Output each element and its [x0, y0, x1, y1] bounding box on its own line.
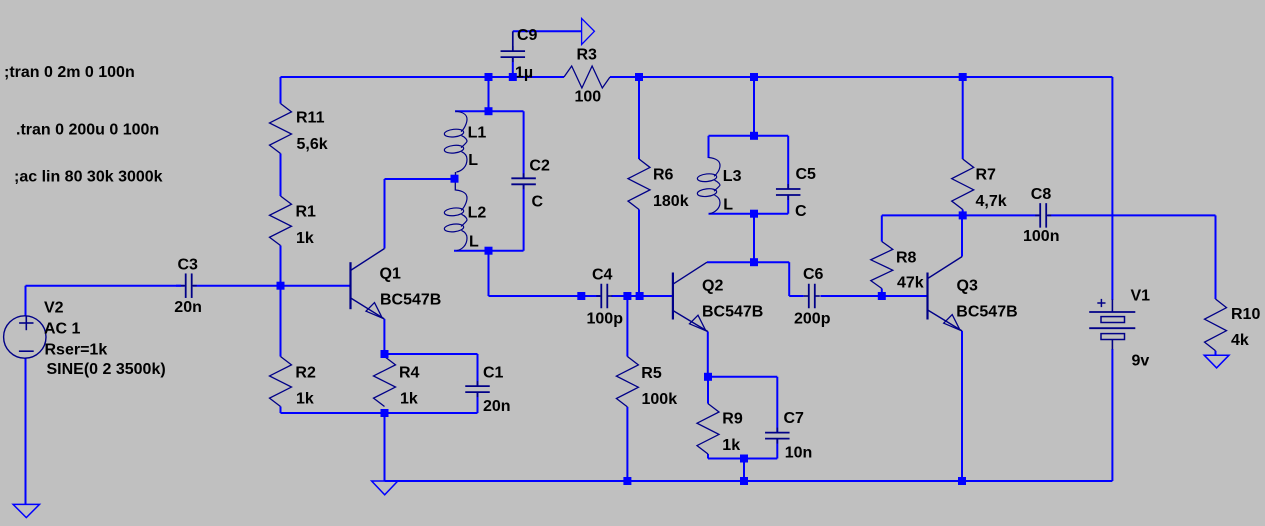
label 100 R3 — [575, 89, 602, 106]
wire R9 bottom bend — [708, 454, 744, 459]
wire battery to ground rail — [1111, 349, 1113, 481]
label C6 — [803, 266, 824, 283]
wire V2 top lead — [25, 286, 27, 317]
svg-text:100p: 100p — [587, 311, 624, 328]
capacitor C9 — [501, 46, 526, 62]
label 100p — [587, 311, 624, 328]
wire R6 bottom lead — [638, 210, 640, 297]
label Rser=1k — [45, 342, 108, 359]
label C C2 — [532, 194, 544, 211]
label 9v — [1132, 353, 1150, 370]
label 200p — [794, 311, 831, 328]
svg-text:R4: R4 — [399, 365, 420, 382]
wire L1L2 tap to Q1 collector — [385, 178, 455, 180]
wire C7 top row — [708, 377, 777, 433]
svg-text:R3: R3 — [577, 47, 598, 64]
svg-text:1k: 1k — [400, 391, 418, 408]
junction node 19 at (384.5,413) — [381, 409, 389, 417]
ground main rail — [372, 481, 398, 495]
wire Q3 base — [882, 295, 928, 297]
label 1k R9 — [722, 437, 740, 454]
wire C6 left drop — [788, 262, 790, 296]
label R4 — [399, 365, 420, 382]
wire Q3 emitter to ground — [961, 331, 963, 481]
junction node 5 at (962.7,77) — [959, 73, 967, 81]
svg-text:20n: 20n — [483, 398, 511, 415]
svg-text:C5: C5 — [796, 166, 817, 183]
wire R7 top lead — [962, 77, 964, 159]
wire top supply rail right — [610, 76, 1112, 78]
wire R5 top lead — [626, 296, 628, 357]
junction node 23 at (744,481) — [740, 477, 748, 485]
resistor R7 — [952, 159, 974, 210]
junction node 1 at (488.5,77) — [485, 73, 493, 81]
wire tank1 top — [455, 110, 524, 112]
wire R10 top lead — [1215, 215, 1217, 299]
svg-text:C4: C4 — [592, 267, 613, 284]
svg-text:Q3: Q3 — [957, 278, 978, 295]
transistor Q3 — [928, 257, 963, 331]
svg-text:1k: 1k — [722, 437, 740, 454]
wire top supply rail left — [281, 76, 565, 78]
svg-text:L2: L2 — [468, 204, 487, 221]
wire tank1 bottom — [454, 250, 524, 252]
svg-text:;ac lin 80 30k 3000k: ;ac lin 80 30k 3000k — [14, 169, 163, 186]
svg-text:L3: L3 — [723, 168, 742, 185]
svg-text:1k: 1k — [296, 230, 314, 247]
label C C5 — [795, 203, 807, 220]
label C1 — [483, 365, 504, 382]
capacitor C1 — [465, 381, 490, 397]
wire R10 bottom lead — [1215, 351, 1217, 355]
svg-text:BC547B: BC547B — [380, 292, 441, 309]
label 100k — [642, 391, 678, 408]
wire R4-C1 top — [385, 354, 478, 386]
svg-text:Rser=1k: Rser=1k — [45, 342, 108, 359]
label L1 — [468, 125, 487, 142]
label R2 — [295, 364, 316, 381]
label R10 — [1231, 306, 1260, 323]
directive .tran 0 200u 0 100n — [16, 122, 159, 139]
wire C8 right to R10 — [1048, 214, 1216, 216]
wire Q2 collector row — [707, 261, 789, 263]
wire tank2 bottom drop — [753, 214, 755, 263]
svg-text:R8: R8 — [896, 250, 917, 267]
junction node 11 at (754,262.2) — [750, 258, 758, 266]
wire C9 top lead — [512, 31, 514, 51]
label 100n — [1023, 228, 1059, 245]
svg-text:C1: C1 — [483, 365, 504, 382]
label C4 — [592, 267, 613, 284]
inductor L1 — [444, 111, 467, 179]
wire tank2 bottom — [709, 213, 789, 215]
wire tank2 top — [709, 135, 789, 137]
wire Q1 emitter lead — [383, 319, 385, 357]
junction node 12 at (280.5,285.7) — [277, 282, 285, 290]
svg-text:1k: 1k — [296, 391, 314, 408]
wire R11-R1 — [280, 154, 282, 197]
svg-text:AC 1: AC 1 — [44, 321, 81, 338]
resistor R3 — [564, 66, 610, 88]
label L2 — [468, 204, 487, 221]
capacitor C3 — [181, 273, 197, 298]
svg-text:100k: 100k — [642, 391, 678, 408]
junction node 18 at (384.5,354) — [381, 350, 389, 358]
resistor R4 — [374, 357, 396, 407]
label BC547B Q2 — [702, 304, 763, 321]
svg-text:L: L — [468, 152, 478, 169]
svg-text:C: C — [532, 194, 544, 211]
transistor Q1 — [351, 249, 385, 319]
svg-text:R10: R10 — [1231, 306, 1260, 323]
svg-text:R11: R11 — [296, 110, 325, 127]
resistor R10 — [1205, 299, 1227, 351]
wire R4 bottom to ground — [384, 413, 386, 481]
label 4k — [1231, 332, 1249, 349]
label R7 — [976, 167, 997, 184]
junction node 16 at (881.8,296) — [878, 292, 886, 300]
capacitor C4 — [596, 284, 612, 309]
svg-text:C7: C7 — [784, 410, 805, 427]
capacitor C5 — [776, 184, 801, 200]
wire tank2 top drop — [753, 77, 755, 136]
svg-text:C8: C8 — [1031, 186, 1052, 203]
label C7 — [784, 410, 805, 427]
wire R1 bottom lead — [280, 246, 282, 286]
wire tank1 top drop — [488, 77, 490, 111]
capacitor C2 — [511, 173, 535, 189]
label Q1 — [380, 266, 401, 283]
wire right supply drop — [1111, 77, 1113, 300]
inductor L2 — [444, 179, 467, 251]
wire C9 lead to rail — [512, 57, 514, 77]
wire R9C7 to ground — [743, 459, 745, 482]
label L L3 — [723, 197, 733, 214]
svg-text:;tran 0 2m 0 100n: ;tran 0 2m 0 100n — [4, 64, 135, 81]
transistor Q2 — [673, 262, 708, 331]
label C8 — [1031, 186, 1052, 203]
resistor R8 — [871, 242, 893, 289]
wire R2 top lead — [280, 286, 282, 357]
svg-text:V1: V1 — [1131, 288, 1151, 305]
label V2 — [44, 300, 64, 317]
svg-text:C3: C3 — [178, 257, 199, 274]
wire C9 top to flag — [513, 30, 582, 32]
label C2 — [529, 158, 550, 175]
wire C4 row left — [489, 295, 601, 297]
label BC547B Q3 — [956, 304, 1017, 321]
wire R11 top lead — [280, 77, 282, 104]
junction node 9 at (754,213.7) — [750, 210, 758, 218]
wire C6 right lead — [820, 295, 881, 297]
junction node 10 at (488.5,250.7) — [485, 247, 493, 255]
svg-text:R6: R6 — [653, 167, 674, 184]
label R3 — [577, 47, 598, 64]
directive ;ac lin 80 30k 3000k — [14, 169, 163, 186]
svg-text:R9: R9 — [722, 411, 743, 428]
ground R10 — [1204, 355, 1229, 368]
label 5,6k — [297, 136, 328, 153]
label L L1 — [468, 152, 478, 169]
svg-text:4k: 4k — [1231, 332, 1249, 349]
svg-text:10n: 10n — [785, 445, 813, 462]
wire C8 left lead — [963, 214, 1039, 216]
label Q3 — [957, 278, 978, 295]
label R9 — [722, 411, 743, 428]
junction node 22 at (627.4,481) — [623, 477, 631, 485]
svg-text:L1: L1 — [468, 125, 487, 142]
label 47k — [897, 275, 924, 292]
battery V1 — [1089, 299, 1135, 350]
svg-text:C: C — [795, 203, 807, 220]
wire base row Q1 left — [26, 285, 185, 287]
junction node 6 at (488.5,111.2) — [485, 107, 493, 115]
wire R5 bottom to ground — [626, 407, 628, 481]
wire base row Q1 right — [193, 285, 351, 287]
label 1k R4 — [400, 391, 418, 408]
junction node 15 at (639.6,296) — [636, 292, 644, 300]
wire C2 column bottom — [523, 185, 525, 251]
svg-text:BC547B: BC547B — [702, 304, 763, 321]
label 1k R1 — [296, 230, 314, 247]
svg-text:180k: 180k — [653, 193, 689, 210]
svg-text:R5: R5 — [641, 365, 662, 382]
label 10n — [785, 445, 813, 462]
label R8 — [896, 250, 917, 267]
svg-text:R1: R1 — [296, 203, 317, 220]
junction node 20 at (708,376.8) — [704, 373, 712, 381]
svg-text:BC547B: BC547B — [956, 304, 1017, 321]
voltage source V2 — [4, 316, 46, 358]
wire Q1 emitter junction to R4 — [384, 354, 386, 357]
directive ;tran 0 2m 0 100n — [4, 64, 135, 81]
svg-text:47k: 47k — [897, 275, 924, 292]
label 4,7k — [976, 193, 1007, 210]
label R11 — [296, 110, 325, 127]
wire bottom ground rail — [385, 480, 1113, 482]
wire R8 bottom lead — [881, 289, 883, 297]
wire Q2 emitter lead — [707, 332, 709, 377]
svg-text:200p: 200p — [794, 311, 831, 328]
wire Q3 collector — [961, 215, 963, 256]
svg-text:100n: 100n — [1023, 228, 1059, 245]
svg-text:R2: R2 — [295, 364, 316, 381]
label R6 — [653, 167, 674, 184]
label C3 — [178, 257, 199, 274]
svg-text:Q1: Q1 — [380, 266, 401, 283]
wire C5 column top — [787, 136, 789, 189]
resistor R2 — [270, 357, 292, 407]
junction node 7 at (754,135.8) — [750, 132, 758, 140]
svg-text:R7: R7 — [976, 167, 997, 184]
wire R7 bottom lead — [962, 210, 964, 216]
label C9 — [517, 27, 538, 44]
junction node 21 at (744,458.5) — [740, 455, 748, 463]
resistor R1 — [270, 196, 292, 246]
svg-text:.tran 0 200u 0 100n: .tran 0 200u 0 100n — [16, 122, 159, 139]
wire C4 row mid — [612, 295, 673, 297]
wire C7 bottom — [744, 439, 777, 459]
wire C6 left lead — [789, 295, 804, 297]
svg-text:L: L — [723, 197, 733, 214]
svg-text:100: 100 — [575, 89, 602, 106]
label 20n C1 — [483, 398, 511, 415]
junction node 17 at (962.7,215.4) — [959, 211, 967, 219]
junction node 13 at (581.3,296) — [577, 292, 585, 300]
ground V2 — [13, 504, 39, 517]
wire R9 top lead — [707, 377, 709, 404]
wire R6 top lead — [638, 77, 640, 159]
label C5 — [796, 166, 817, 183]
junction node 3 at (639,77) — [635, 73, 643, 81]
svg-text:5,6k: 5,6k — [297, 136, 328, 153]
svg-text:C9: C9 — [517, 27, 538, 44]
svg-text:V2: V2 — [44, 300, 64, 317]
label AC 1 — [44, 321, 81, 338]
svg-text:1µ: 1µ — [515, 64, 533, 81]
wire R8 top bend — [882, 215, 963, 241]
label 20n C3 — [174, 299, 202, 316]
wire C2 column top — [523, 111, 525, 178]
label R1 — [296, 203, 317, 220]
capacitor C7 — [765, 428, 790, 444]
wire C5 column bottom — [787, 195, 789, 214]
resistor R6 — [628, 159, 650, 210]
wire V2 bottom lead — [25, 358, 27, 505]
svg-text:SINE(0 2 3500k): SINE(0 2 3500k) — [47, 361, 166, 378]
resistor R11 — [270, 104, 292, 154]
label Q2 — [702, 278, 723, 295]
resistor R9 — [697, 404, 719, 454]
wire L3 top lead — [708, 136, 710, 158]
junction node 4 at (754,77) — [750, 73, 758, 81]
label V1 — [1131, 288, 1151, 305]
label R5 — [641, 365, 662, 382]
junction node 24 at (962,481) — [958, 477, 966, 485]
junction node 2 at (512.8,77) — [509, 73, 517, 81]
label 180k — [653, 193, 689, 210]
svg-text:C2: C2 — [529, 158, 550, 175]
label 1u C9 — [515, 64, 533, 81]
svg-text:4,7k: 4,7k — [976, 193, 1007, 210]
wire Q1 collector — [384, 179, 386, 249]
svg-text:9v: 9v — [1132, 353, 1150, 370]
svg-text:20n: 20n — [174, 299, 202, 316]
label L L2 — [469, 234, 479, 251]
label BC547B Q1 — [380, 292, 441, 309]
svg-text:C6: C6 — [803, 266, 824, 283]
label L3 — [723, 168, 742, 185]
capacitor C6 — [804, 284, 820, 309]
inductor L3 — [697, 158, 720, 214]
wire C3 left lead — [176, 285, 181, 287]
output flag — [582, 18, 595, 44]
junction node 14 at (627.4,296) — [623, 292, 631, 300]
capacitor C8 — [1035, 203, 1051, 228]
wire C1 bottom lead — [477, 392, 479, 413]
wire R2-R4-C1 bottom — [281, 407, 478, 414]
junction node 8 at (454.5,178.7) — [451, 175, 459, 183]
label 1k R2 — [296, 391, 314, 408]
svg-text:Q2: Q2 — [702, 278, 723, 295]
resistor R5 — [616, 357, 638, 407]
svg-text:L: L — [469, 234, 479, 251]
wire tank1 bottom drop — [488, 251, 490, 296]
label SINE(0 2 3500k) — [47, 361, 166, 378]
